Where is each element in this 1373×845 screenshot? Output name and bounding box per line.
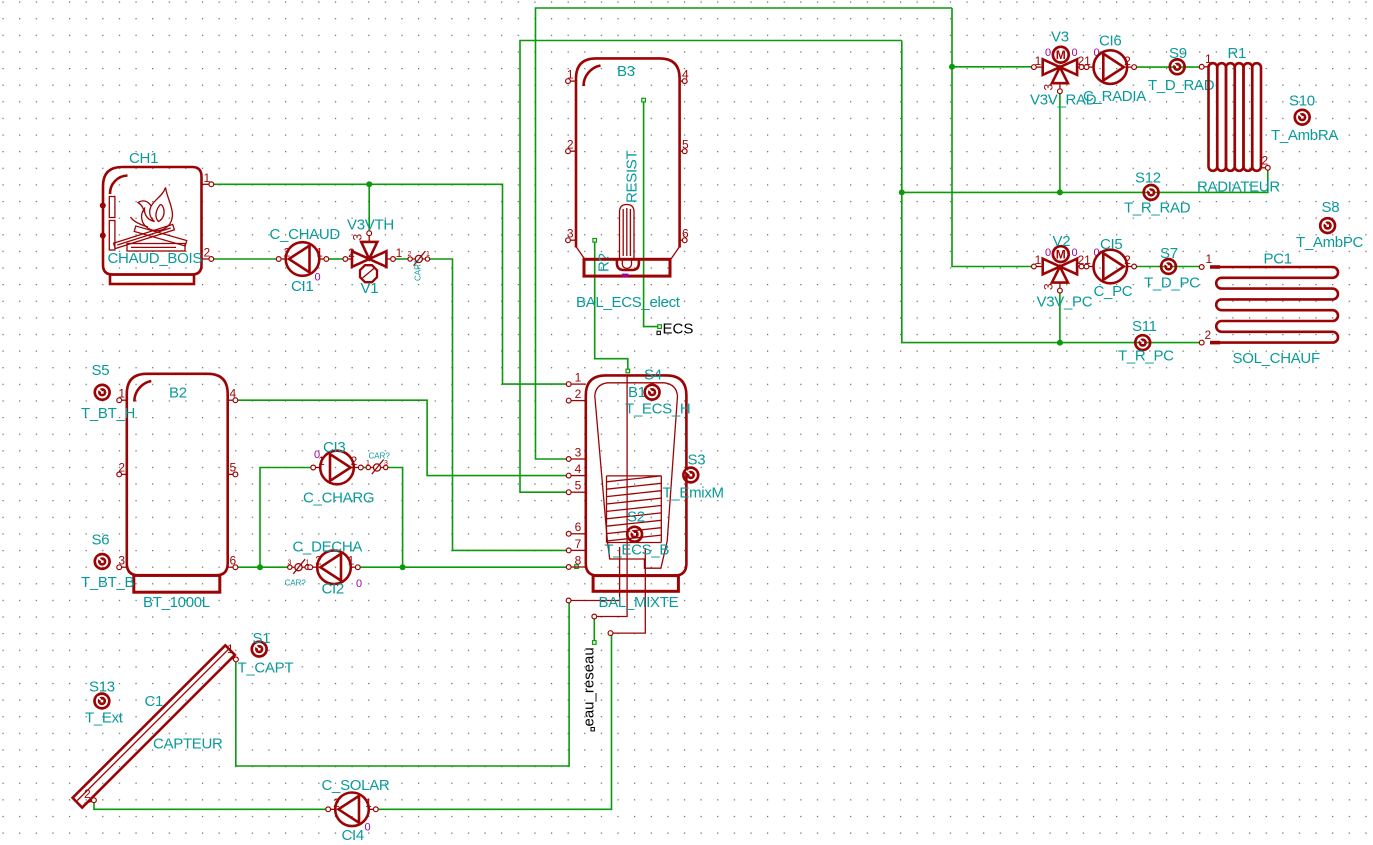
svg-text:T_R_PC: T_R_PC: [1118, 348, 1174, 365]
svg-text:CAR?: CAR?: [369, 452, 391, 461]
svg-text:2: 2: [315, 554, 322, 568]
wire V3 pin3 drop: [1059, 94, 1061, 193]
svg-text:1: 1: [1035, 253, 1042, 267]
check valve charge line: [366, 452, 390, 475]
svg-text:T_EmixM: T_EmixM: [663, 485, 724, 502]
svg-text:2: 2: [204, 246, 211, 260]
wire CI2 to B1 pin8: [358, 566, 567, 568]
tank B2 pin 2: [117, 461, 127, 477]
tank B1 body: [586, 375, 687, 591]
wire B2 pin4 to B1 pin4: [238, 400, 567, 475]
svg-text:S4: S4: [644, 367, 662, 384]
sensor S7: [1144, 245, 1200, 292]
wire supply branch V3: [952, 66, 1032, 68]
svg-text:BAL_ECS_elect: BAL_ECS_elect: [576, 294, 681, 311]
node junction V3 return: [1057, 189, 1063, 195]
svg-text:S3: S3: [688, 452, 706, 469]
svg-text:S1: S1: [253, 630, 271, 647]
svg-text:3: 3: [1042, 84, 1056, 91]
radiator R1: [1199, 52, 1270, 171]
svg-text:0: 0: [1072, 247, 1078, 259]
svg-text:S13: S13: [89, 679, 115, 696]
svg-text:1: 1: [366, 460, 370, 467]
wire return vertical: [902, 41, 1199, 343]
svg-text:V1: V1: [361, 280, 379, 297]
solar collector C1: [73, 642, 239, 808]
wire eau_reseau stub: [593, 619, 595, 641]
wire end square R? top: [593, 239, 597, 243]
node junction CH1-V1: [366, 181, 372, 187]
svg-text:S2: S2: [627, 509, 645, 526]
svg-text:S6: S6: [92, 532, 110, 549]
wire B2 pin6 to check valve: [238, 566, 288, 568]
svg-text:CI5: CI5: [1100, 236, 1122, 253]
svg-text:T_ECS_B: T_ECS_B: [605, 542, 670, 559]
svg-text:3: 3: [575, 446, 582, 460]
svg-text:1: 1: [1084, 253, 1091, 267]
wire capteur pin1 to B1 solar top: [236, 603, 569, 766]
svg-text:0: 0: [315, 272, 321, 284]
svg-text:2: 2: [575, 387, 582, 401]
svg-text:1: 1: [575, 371, 582, 385]
tank B1 solar bottom pin: [608, 548, 645, 635]
svg-text:V3VTH: V3VTH: [347, 217, 394, 234]
svg-text:R?: R?: [596, 253, 613, 272]
svg-text:2: 2: [1124, 54, 1131, 68]
node junction charge loop left: [257, 564, 263, 570]
wire end square B3 top: [642, 98, 646, 102]
svg-text:T_D_RAD: T_D_RAD: [1148, 77, 1215, 94]
svg-text:3: 3: [351, 234, 365, 241]
sensor S1: [238, 630, 294, 677]
svg-text:5: 5: [682, 138, 689, 152]
svg-text:S12: S12: [1135, 170, 1161, 187]
wire check valve to charge loop right: [388, 468, 403, 568]
svg-text:6: 6: [682, 227, 689, 241]
sensor S13: [85, 679, 124, 727]
tank B3 pin 2: [566, 138, 576, 154]
svg-text:T_D_PC: T_D_PC: [1144, 275, 1200, 292]
svg-text:BT_1000L: BT_1000L: [143, 594, 210, 611]
floor heating coil PC1: [1199, 252, 1338, 345]
wire return top: [520, 41, 902, 493]
svg-text:1: 1: [204, 171, 211, 185]
tank B3 pin 5: [680, 138, 689, 154]
svg-text:CI1: CI1: [291, 278, 313, 295]
svg-text:S7: S7: [1160, 245, 1178, 262]
tank B1 pin 5: [566, 479, 586, 495]
svg-text:1: 1: [396, 246, 403, 260]
pump CI5: [1084, 250, 1136, 284]
tank B2 pin 3: [117, 554, 127, 570]
net label eau_reseau: [581, 647, 598, 731]
tank B1 pin 4: [566, 462, 586, 478]
svg-text:C_DECHA: C_DECHA: [293, 539, 363, 556]
svg-text:T_Ext: T_Ext: [85, 710, 124, 727]
svg-text:T_AmbPC: T_AmbPC: [1296, 234, 1364, 251]
sensor S3: [663, 452, 724, 502]
svg-text:T_AmbRA: T_AmbRA: [1271, 127, 1338, 144]
wire supply to V3: [952, 8, 1032, 267]
svg-text:CAR?: CAR?: [414, 259, 423, 281]
sensor S10: [1271, 93, 1338, 145]
wire CH1 pin2 to CI1: [212, 258, 277, 260]
tank B1 pin 7: [566, 537, 586, 553]
svg-text:2: 2: [284, 246, 291, 260]
pump CI2: [308, 550, 360, 584]
svg-text:2: 2: [567, 138, 574, 152]
svg-text:1: 1: [1206, 252, 1213, 266]
svg-text:5: 5: [575, 479, 582, 493]
svg-text:1: 1: [227, 642, 234, 656]
svg-text:3: 3: [118, 554, 125, 568]
wire check valve to B1 pin7: [429, 259, 566, 550]
valve V1 three-way thermostatic: [343, 231, 403, 282]
svg-text:CHAUD_BOIS: CHAUD_BOIS: [108, 250, 203, 267]
svg-text:CH1: CH1: [129, 150, 158, 167]
svg-text:1: 1: [426, 251, 430, 258]
svg-text:B1: B1: [628, 384, 646, 401]
svg-text:C_RADIA: C_RADIA: [1083, 88, 1146, 105]
svg-text:CAR?: CAR?: [285, 579, 307, 588]
tank B3 pin 1: [566, 68, 576, 84]
svg-text:0: 0: [365, 822, 371, 834]
svg-text:1: 1: [1205, 52, 1212, 66]
tank B1 solar top pin: [566, 547, 619, 603]
svg-text:PC1: PC1: [1264, 251, 1292, 268]
wire V1 pin3 drop: [368, 184, 370, 231]
wire capteur pin2 to CI4: [94, 802, 326, 809]
boiler CH1 pin 1: [202, 171, 214, 187]
svg-text:8: 8: [575, 553, 582, 567]
svg-text:4: 4: [230, 387, 237, 401]
wire V2 pin3 drop: [1059, 293, 1061, 343]
tank B3 pin 6: [680, 227, 689, 243]
svg-text:3: 3: [384, 460, 388, 467]
tank B3 pin 4: [680, 68, 689, 84]
svg-text:T_BT_H: T_BT_H: [81, 405, 135, 422]
tank B2 body: [127, 374, 228, 592]
wire CI3 to check valve: [361, 467, 367, 469]
svg-text:1: 1: [316, 246, 323, 260]
tank B1 pin 6: [566, 520, 586, 536]
tank B1 cold water pin: [592, 376, 627, 619]
svg-text:CAPTEUR: CAPTEUR: [153, 736, 223, 753]
svg-text:T_ECS_H: T_ECS_H: [625, 401, 690, 418]
wire end square B1 top: [626, 369, 630, 373]
tank B2 pin 6: [228, 554, 238, 570]
sensor S9: [1148, 45, 1215, 94]
sensor S4: [625, 367, 690, 418]
svg-text:2: 2: [1262, 154, 1269, 168]
svg-text:2: 2: [84, 787, 91, 801]
svg-text:S11: S11: [1132, 318, 1157, 335]
tank B1 inner vessel: [595, 383, 678, 568]
svg-text:V3V_PC: V3V_PC: [1037, 294, 1093, 311]
svg-text:2: 2: [333, 796, 340, 810]
svg-text:2: 2: [348, 246, 355, 260]
svg-text:C_SOLAR: C_SOLAR: [322, 777, 390, 794]
svg-text:C_CHARG: C_CHARG: [303, 490, 374, 507]
node junction charge loop right: [400, 564, 406, 570]
svg-text:5: 5: [230, 461, 237, 475]
pump CI4: [326, 793, 378, 827]
tank B2 pin 1: [117, 387, 127, 403]
svg-text:6: 6: [575, 520, 582, 534]
svg-text:S8: S8: [1322, 199, 1340, 216]
svg-text:S10: S10: [1289, 93, 1315, 110]
svg-text:T_BT_B: T_BT_B: [81, 574, 135, 591]
tank B2 pin 5: [228, 461, 238, 477]
tank B3 body: [576, 58, 680, 276]
svg-text:1: 1: [1084, 54, 1091, 68]
valve V3 motorized: [1032, 47, 1085, 94]
check valve after V1: [408, 251, 431, 281]
tank B3 pin 3: [566, 227, 576, 243]
svg-text:4: 4: [575, 462, 582, 476]
svg-text:SOL_CHAUF: SOL_CHAUF: [1233, 350, 1320, 367]
node junction return: [899, 189, 905, 195]
sensor S8: [1296, 199, 1364, 251]
svg-text:S5: S5: [92, 362, 110, 379]
wire end square B1 pin8: [575, 565, 579, 569]
svg-text:2: 2: [118, 461, 125, 475]
svg-text:2: 2: [408, 251, 412, 258]
boiler CH1 fire logs: [114, 224, 187, 251]
svg-text:0: 0: [356, 578, 362, 590]
boiler CH1 pin 2: [202, 246, 214, 262]
tank B1 pin 8: [566, 553, 586, 569]
svg-text:T_R_RAD: T_R_RAD: [1124, 200, 1191, 217]
svg-text:CI6: CI6: [1099, 33, 1121, 50]
wire CI1 to V1: [329, 258, 343, 260]
svg-text:0: 0: [1072, 47, 1078, 59]
svg-text:T_CAPT: T_CAPT: [238, 660, 294, 677]
pump CI3: [311, 451, 363, 485]
pump CI6: [1084, 50, 1136, 84]
wire hot supply top: [536, 8, 953, 459]
svg-text:C1: C1: [145, 693, 164, 710]
wire B3 to ECS label: [644, 102, 658, 327]
svg-text:1: 1: [348, 554, 355, 568]
wire CI6 to radiator: [1136, 66, 1199, 68]
wire charge loop left riser: [260, 468, 313, 568]
wire end square ECS: [658, 325, 662, 329]
svg-text:B2: B2: [169, 385, 187, 402]
sensor S5: [81, 362, 135, 422]
svg-text:6: 6: [230, 554, 237, 568]
svg-text:1: 1: [118, 387, 125, 401]
node junction supply: [949, 64, 955, 70]
svg-text:C_PC: C_PC: [1094, 283, 1133, 300]
wire CH1 pin1 to B1 pin1: [212, 184, 567, 384]
svg-text:3: 3: [288, 560, 292, 567]
sensor S6: [81, 532, 135, 592]
svg-text:eau_reseau: eau_reseau: [581, 647, 598, 726]
svg-text:B3: B3: [617, 63, 635, 80]
sensor S11: [1118, 318, 1174, 365]
boiler CH1 flame: [131, 188, 173, 231]
check valve discharge line: [285, 559, 310, 587]
tank B1 coil: [607, 476, 662, 543]
svg-text:CI3: CI3: [323, 439, 345, 456]
svg-text:2: 2: [351, 454, 358, 468]
svg-text:1: 1: [1035, 54, 1042, 68]
tank B1 pin 3: [566, 446, 586, 462]
tank B3 heating element: [620, 205, 635, 260]
svg-text:2: 2: [1205, 328, 1212, 342]
tank B3 magenta anchor: [622, 274, 629, 277]
sensor S12: [1124, 170, 1191, 217]
svg-text:3: 3: [1042, 283, 1056, 290]
svg-text:7: 7: [575, 537, 582, 551]
valve V2 motorized: [1032, 246, 1085, 293]
svg-text:0: 0: [314, 449, 320, 461]
svg-text:RESIST: RESIST: [624, 150, 641, 203]
wire radiator return: [902, 170, 1268, 192]
svg-text:S9: S9: [1169, 45, 1187, 62]
svg-text:RADIATEUR: RADIATEUR: [1197, 179, 1280, 196]
svg-text:C_CHAUD: C_CHAUD: [270, 226, 341, 243]
wire CI4 to B1 solar bottom: [378, 636, 611, 810]
svg-text:R1: R1: [1228, 45, 1247, 62]
tank B1 pin 1: [566, 371, 586, 387]
svg-text:ECS: ECS: [663, 321, 694, 338]
node junction V2 return: [1057, 340, 1063, 346]
svg-text:1: 1: [365, 796, 372, 810]
tank B1 pin 2: [566, 387, 586, 403]
wire end square eau_reseau: [593, 641, 597, 645]
wire CI5 to floor coil: [1136, 266, 1199, 268]
sensor S2: [605, 509, 670, 559]
svg-text:0: 0: [1045, 47, 1051, 59]
wire V1 pin1 to check valve: [395, 258, 408, 260]
net label ECS: [657, 321, 693, 338]
wire B3 R? dangling: [595, 242, 628, 369]
svg-text:3: 3: [567, 227, 574, 241]
svg-text:4: 4: [682, 68, 689, 82]
svg-text:1: 1: [567, 68, 574, 82]
svg-text:BAL_MIXTE: BAL_MIXTE: [599, 594, 679, 611]
svg-text:V2: V2: [1053, 233, 1071, 250]
svg-text:2: 2: [1124, 253, 1131, 267]
pump CI1: [276, 242, 328, 276]
svg-text:CI2: CI2: [322, 581, 344, 598]
boiler CH1 body: [100, 167, 202, 284]
svg-text:0: 0: [1045, 247, 1051, 259]
svg-text:V3: V3: [1051, 29, 1069, 46]
svg-text:CI4: CI4: [342, 827, 364, 844]
tank B2 pin 4: [228, 387, 238, 403]
